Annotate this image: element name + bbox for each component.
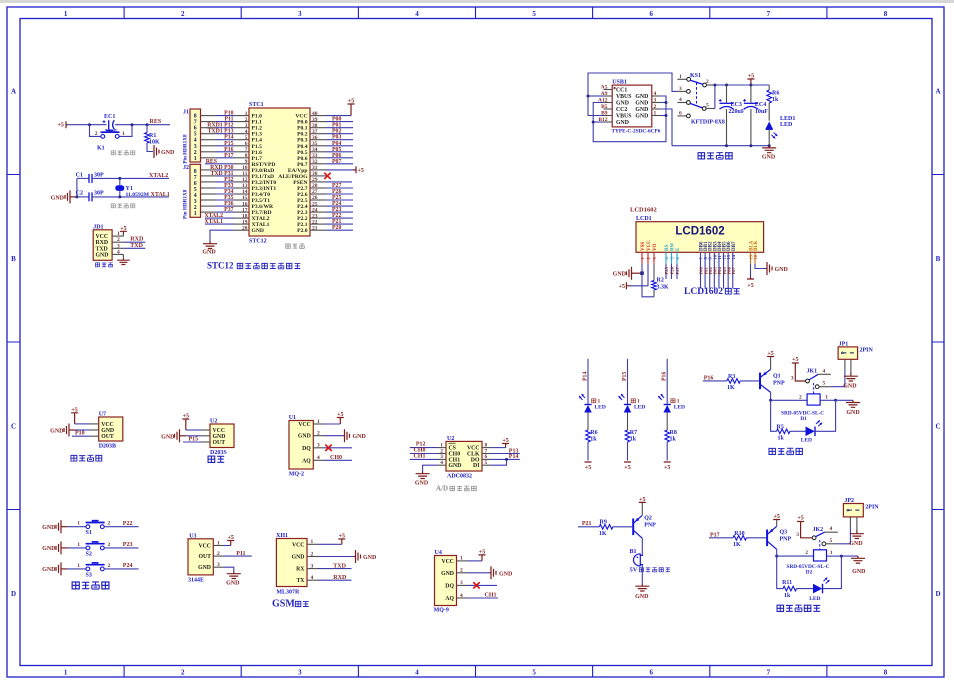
svg-text:+5: +5 <box>664 465 670 471</box>
svg-text:VSS: VSS <box>641 242 646 251</box>
ground GND LCD left <box>613 267 642 280</box>
wire P15 flame <box>183 437 201 443</box>
svg-text:GND: GND <box>635 101 648 107</box>
svg-text:GND: GND <box>762 155 776 161</box>
svg-text:4: 4 <box>830 526 833 532</box>
svg-text:GND: GND <box>441 571 454 577</box>
svg-text:GND: GND <box>616 120 629 126</box>
svg-text:2PIN: 2PIN <box>860 347 874 353</box>
frame row letters <box>11 87 941 598</box>
wire LED string P15 <box>627 359 629 405</box>
connector USB1 TYPE-C <box>612 80 652 127</box>
svg-text:10K: 10K <box>149 140 160 146</box>
connector JP2 2PIN <box>843 498 879 530</box>
junction Q3 coil <box>775 555 778 558</box>
svg-text:RXD: RXD <box>333 575 347 581</box>
svg-text:1k: 1k <box>778 435 785 441</box>
svg-text:TXD: TXD <box>130 243 143 249</box>
svg-text:C: C <box>935 422 940 430</box>
svg-text:XTAL1: XTAL1 <box>204 219 223 225</box>
svg-text:10uF: 10uF <box>755 109 768 115</box>
svg-text:6: 6 <box>649 10 653 18</box>
wire GND right column <box>660 102 666 104</box>
svg-text:XTAL1: XTAL1 <box>151 192 170 198</box>
power +5 BLA <box>747 277 754 289</box>
svg-text:Q2: Q2 <box>644 515 652 521</box>
wire CH1 adc <box>410 453 438 459</box>
ground GND S1 <box>42 520 67 533</box>
svg-text:P22: P22 <box>123 521 133 527</box>
svg-text:D: D <box>11 590 16 598</box>
svg-text:4: 4 <box>679 97 682 103</box>
svg-text:R1: R1 <box>149 133 156 139</box>
svg-text:B: B <box>11 255 16 263</box>
wire RXD <box>123 237 145 243</box>
svg-text:GND: GND <box>42 567 56 573</box>
junction Q1 coil <box>769 399 772 402</box>
svg-text:GND: GND <box>298 434 311 440</box>
wire R2 loop <box>642 273 654 297</box>
svg-text:VO: VO <box>653 243 658 251</box>
caption flame <box>208 456 224 462</box>
svg-text:2: 2 <box>805 550 808 556</box>
svg-text:KFTDIP-8X8: KFTDIP-8X8 <box>691 120 725 126</box>
junction gnd EC3 <box>725 144 728 147</box>
switch KS1 KFTDIP-8X8 <box>677 73 725 126</box>
svg-text:1: 1 <box>117 231 120 237</box>
relay contact JK1 <box>791 357 831 394</box>
ground GND buzzer <box>635 584 649 600</box>
wire crystal left <box>76 178 78 197</box>
wire P32 <box>201 177 235 183</box>
svg-text:GND: GND <box>846 410 860 416</box>
wire CH0 adc <box>410 448 438 454</box>
resistor R6 1k <box>586 413 598 461</box>
svg-text:S2: S2 <box>86 551 92 557</box>
svg-text:VCC: VCC <box>298 422 311 428</box>
wire P05 <box>326 147 353 153</box>
LCD pin names <box>641 240 759 251</box>
svg-text:1K: 1K <box>727 385 735 391</box>
wire P13 adc <box>491 448 520 454</box>
wire Q1 collector <box>770 392 772 400</box>
wire TXDP31 <box>201 171 235 177</box>
power +5 LED 1 <box>585 461 592 463</box>
svg-text:GND: GND <box>635 114 648 120</box>
svg-text:GND: GND <box>635 594 649 600</box>
svg-text:J1: J1 <box>183 110 189 116</box>
svg-text:4: 4 <box>440 460 443 466</box>
svg-text:+5: +5 <box>58 123 64 129</box>
svg-text:JK2: JK2 <box>813 527 824 533</box>
wire VBUS left <box>588 95 604 97</box>
svg-text:U7: U7 <box>99 412 106 418</box>
svg-text:2: 2 <box>317 431 320 437</box>
svg-text:P25: P25 <box>664 266 669 274</box>
svg-text:VBUS: VBUS <box>616 114 631 120</box>
svg-text:VCC: VCC <box>647 240 652 251</box>
svg-text:P27: P27 <box>675 266 680 274</box>
svg-text:+5: +5 <box>585 465 591 471</box>
svg-text:1K: 1K <box>733 542 741 548</box>
connector J2 Pin HDR1X8 <box>183 164 201 219</box>
connector JD1 <box>93 224 123 260</box>
caption gas valve <box>777 605 820 612</box>
svg-text:7: 7 <box>767 10 771 18</box>
ground GND reset <box>154 145 175 158</box>
power +5 Q2 <box>639 497 646 515</box>
capacitor EC3 220uF <box>719 85 745 146</box>
ground GND JP2 <box>849 530 864 547</box>
svg-text:GND: GND <box>852 569 866 575</box>
LCD control wires <box>664 252 680 279</box>
svg-text:3: 3 <box>654 98 657 104</box>
wire P20 <box>326 225 353 231</box>
svg-text:+5: +5 <box>120 226 126 232</box>
wire P15 <box>201 141 235 147</box>
LED indicator 2 <box>619 394 646 413</box>
wire P00 <box>326 117 353 123</box>
svg-text:LED: LED <box>595 405 606 411</box>
svg-text:EC4: EC4 <box>755 102 766 108</box>
svg-text:5: 5 <box>532 10 536 18</box>
svg-text:EC3: EC3 <box>731 102 742 108</box>
frame row dividers <box>7 175 945 510</box>
svg-text:1k: 1k <box>784 593 791 599</box>
svg-text:GND: GND <box>499 571 513 577</box>
sensor U3 3144E body <box>188 533 224 583</box>
svg-text:20: 20 <box>242 225 248 231</box>
ground GND coil D1 <box>836 400 861 416</box>
svg-text:U2: U2 <box>447 436 454 442</box>
svg-text:3: 3 <box>117 243 120 249</box>
svg-text:MQ-9: MQ-9 <box>434 608 449 614</box>
svg-text:CH1: CH1 <box>414 453 426 459</box>
junction rail EC3 <box>725 84 728 87</box>
resistor R9 1K <box>599 519 632 537</box>
power +5 MQ-2 <box>324 412 344 424</box>
caption button reset <box>111 151 135 155</box>
svg-text:2: 2 <box>799 394 802 400</box>
svg-text:2: 2 <box>108 542 111 548</box>
power +5 U3 <box>224 535 234 546</box>
svg-text:+5: +5 <box>71 407 77 413</box>
svg-text:R3: R3 <box>728 374 735 380</box>
svg-text:USB1: USB1 <box>612 80 627 86</box>
svg-text:P07: P07 <box>332 159 341 165</box>
svg-text:Pin HDR1X8: Pin HDR1X8 <box>183 134 189 164</box>
power +5 EA pin31 <box>326 166 364 174</box>
caption PIR <box>71 455 102 461</box>
svg-text:C2: C2 <box>76 191 83 197</box>
wire DI tie <box>491 459 507 465</box>
svg-text:+5: +5 <box>502 438 508 444</box>
wire P25 <box>326 195 353 201</box>
wire P23 <box>104 542 138 548</box>
svg-text:S1: S1 <box>86 530 92 536</box>
ground GND power <box>762 146 776 161</box>
svg-text:1k: 1k <box>772 97 779 103</box>
svg-text:220uF: 220uF <box>729 109 745 115</box>
power +5 LED 2 <box>624 461 631 463</box>
svg-text:K1: K1 <box>97 146 105 152</box>
wire P17 valve <box>709 532 733 538</box>
svg-text:1: 1 <box>217 540 220 546</box>
svg-text:R10: R10 <box>734 531 744 537</box>
resistor R7 1k <box>625 413 637 461</box>
svg-text:JP2: JP2 <box>844 498 854 504</box>
wire P14 adc <box>491 454 520 460</box>
svg-text:S3: S3 <box>86 572 92 578</box>
buzzer B1 <box>630 549 644 566</box>
svg-text:R9: R9 <box>600 519 607 525</box>
svg-text:GND: GND <box>353 434 367 440</box>
svg-text:GND: GND <box>96 252 109 258</box>
sensor U7 PIR body <box>90 412 123 450</box>
svg-text:P17: P17 <box>224 153 233 159</box>
power +5 adc <box>491 438 510 448</box>
wire JK1 pin5 to JP1 <box>831 371 845 387</box>
node RES <box>146 119 162 126</box>
wire P34 <box>201 189 235 195</box>
svg-text:Pin HDR1X8: Pin HDR1X8 <box>183 189 189 219</box>
svg-text:A: A <box>11 87 16 95</box>
wire S1 left <box>67 521 86 527</box>
wire GND rail bottom <box>592 141 594 143</box>
MCU left pins <box>234 111 249 232</box>
svg-text:VBUS: VBUS <box>616 94 631 100</box>
svg-text:3: 3 <box>460 580 463 586</box>
svg-text:A5: A5 <box>601 85 608 91</box>
ground GND coil D2 <box>841 556 866 575</box>
svg-text:B: B <box>936 255 941 263</box>
svg-text:RXD: RXD <box>96 240 109 246</box>
svg-text:4: 4 <box>311 575 314 581</box>
wire P21 <box>578 521 599 527</box>
svg-text:P10: P10 <box>75 431 85 437</box>
power +5 MQ-9 <box>467 549 486 561</box>
svg-text:EC1: EC1 <box>104 114 115 120</box>
svg-text:PNP: PNP <box>644 522 656 528</box>
capacitor C1 30P <box>76 173 120 183</box>
wire P10 U7 <box>72 431 90 437</box>
ground GND S2 <box>42 541 67 554</box>
wire P06 <box>326 153 353 159</box>
svg-text:P23: P23 <box>123 542 133 548</box>
capacitor EC1 10uF <box>103 114 118 135</box>
resistor R10 1K <box>733 531 766 548</box>
svg-text:LED: LED <box>809 596 820 602</box>
ground GND S3 <box>42 562 67 575</box>
svg-text:P20: P20 <box>332 225 341 231</box>
sensor U2 flame body <box>201 419 234 457</box>
wire snubber right D2 <box>823 556 842 589</box>
svg-text:TXD: TXD <box>333 563 346 569</box>
svg-text:4: 4 <box>415 10 419 18</box>
LCD pin numbers <box>640 254 758 259</box>
svg-text:P21: P21 <box>582 521 592 527</box>
capacitor C2 30P <box>76 191 120 202</box>
power +5 reset <box>58 121 69 129</box>
relay contact JK2 <box>796 516 838 550</box>
svg-text:D2: D2 <box>806 570 813 576</box>
svg-text:1: 1 <box>194 156 197 162</box>
wire S2 left <box>67 542 86 548</box>
svg-text:DB7: DB7 <box>732 241 737 251</box>
svg-text:+5: +5 <box>773 514 779 520</box>
svg-text:2: 2 <box>95 131 98 137</box>
wire Q3 collector <box>776 549 778 556</box>
svg-text:GND: GND <box>449 463 462 469</box>
ground GND MCU <box>202 242 217 256</box>
ground GND flame <box>161 429 201 442</box>
wire P11 <box>224 551 252 557</box>
svg-text:P14: P14 <box>583 372 589 381</box>
wire button branch <box>90 125 101 137</box>
svg-text:GND: GND <box>50 429 64 435</box>
pushbutton S2 <box>86 542 105 558</box>
svg-text:21: 21 <box>312 225 318 231</box>
svg-text:VCC: VCC <box>96 234 109 240</box>
svg-text:30P: 30P <box>94 173 104 179</box>
power +5 VCC pin40 <box>326 99 355 116</box>
junction coil right <box>834 399 837 402</box>
wire TXD <box>123 243 145 249</box>
caption GSM module <box>272 599 309 610</box>
svg-text:P2.0: P2.0 <box>297 228 308 234</box>
wire buzzer gnd <box>641 565 643 584</box>
svg-text:4: 4 <box>823 368 826 374</box>
svg-text:U2: U2 <box>210 419 217 425</box>
svg-text:P07: P07 <box>731 266 736 274</box>
pushbutton S1 <box>86 521 105 537</box>
svg-text:RXD: RXD <box>130 237 144 243</box>
junction LCD gnd <box>640 271 644 275</box>
svg-text:2: 2 <box>706 79 709 85</box>
svg-text:DQ: DQ <box>302 446 311 452</box>
svg-text:LED: LED <box>801 438 812 444</box>
svg-text:RW: RW <box>671 243 676 251</box>
svg-text:PNP: PNP <box>780 536 792 542</box>
svg-text:LCD1602: LCD1602 <box>630 207 657 214</box>
svg-text:A/D: A/D <box>436 485 448 493</box>
svg-text:+5: +5 <box>797 516 803 522</box>
svg-text:GSM: GSM <box>272 599 295 610</box>
svg-text:P17: P17 <box>710 532 720 538</box>
svg-text:1k: 1k <box>590 437 597 443</box>
svg-text:GND: GND <box>101 428 114 434</box>
svg-text:OUT: OUT <box>101 434 114 440</box>
wire P27 <box>326 183 353 189</box>
caption power circuit <box>698 153 732 160</box>
svg-text:RX: RX <box>296 567 305 573</box>
svg-text:U3: U3 <box>189 533 196 539</box>
svg-text:OUT: OUT <box>213 440 226 446</box>
svg-text:5: 5 <box>823 381 826 387</box>
ground GND JP1 <box>843 373 858 390</box>
svg-text:TYPE-C-2SDC-6CP6: TYPE-C-2SDC-6CP6 <box>612 129 661 135</box>
svg-text:1: 1 <box>77 521 80 527</box>
svg-text:KS1: KS1 <box>690 73 701 79</box>
svg-text:VCC: VCC <box>441 559 454 565</box>
svg-text:PNP: PNP <box>773 380 785 386</box>
svg-text:3: 3 <box>679 86 682 92</box>
wire XTAL1 chip <box>204 219 234 225</box>
junction gnd col a <box>665 101 668 104</box>
svg-text:P15: P15 <box>622 372 628 381</box>
resistor R3 1K <box>727 374 759 391</box>
svg-text:D: D <box>935 590 940 598</box>
svg-text:3: 3 <box>311 563 314 569</box>
svg-text:R2: R2 <box>657 278 664 284</box>
svg-text:1: 1 <box>64 10 68 18</box>
svg-text:1K: 1K <box>599 531 607 537</box>
power +5 rail symbol <box>747 74 754 86</box>
wire P35 <box>201 195 235 201</box>
svg-text:STC12: STC12 <box>249 239 267 245</box>
svg-text:2: 2 <box>217 551 220 557</box>
junction coil right D2 <box>840 555 843 558</box>
wire P12 adc <box>410 442 438 448</box>
svg-text:DI: DI <box>473 463 480 469</box>
LED indicator 3 <box>658 394 685 413</box>
relay D2 coil SRD-05VDC-SL-C <box>777 550 842 576</box>
wire P36 <box>201 201 235 207</box>
svg-text:RS: RS <box>665 244 670 251</box>
svg-text:GND: GND <box>226 581 240 587</box>
wire P16 <box>201 147 235 153</box>
ground GND crystal <box>51 190 77 203</box>
caption LCD1602 display <box>684 287 740 297</box>
svg-text:GND: GND <box>161 150 175 156</box>
svg-text:CC1: CC1 <box>616 88 627 94</box>
svg-text:P37: P37 <box>224 207 233 213</box>
svg-text:STC12: STC12 <box>207 261 234 271</box>
svg-text:GND: GND <box>252 228 264 234</box>
svg-text:5: 5 <box>706 103 709 109</box>
svg-text:VCC: VCC <box>101 422 114 428</box>
ground GND MQ-2 <box>324 429 367 442</box>
svg-text:6: 6 <box>679 110 682 116</box>
svg-text:XH1: XH1 <box>276 533 288 539</box>
svg-text:CC2: CC2 <box>616 107 627 113</box>
wire P22 <box>326 213 353 219</box>
ground GND U7 <box>50 424 90 437</box>
svg-text:2: 2 <box>181 669 185 677</box>
wire +5 rail <box>715 85 769 109</box>
capacitor EC4 10uF <box>743 85 768 146</box>
wire XTAL2 <box>120 177 169 179</box>
svg-text:OUT: OUT <box>198 554 211 560</box>
wire reset top <box>67 124 107 126</box>
svg-text:U1: U1 <box>289 415 296 421</box>
svg-text:Q3: Q3 <box>780 529 788 535</box>
ground JD1 <box>117 254 130 264</box>
svg-text:10uF: 10uF <box>105 129 118 135</box>
caption AD convert circuit <box>436 485 476 493</box>
svg-text:LCD1602: LCD1602 <box>684 287 723 297</box>
power +5 LCD <box>619 282 631 290</box>
power +5 Q3 <box>773 514 780 526</box>
svg-text:JP1: JP1 <box>839 341 849 347</box>
svg-text:GND: GND <box>613 272 627 278</box>
svg-text:5: 5 <box>532 669 536 677</box>
svg-text:+5: +5 <box>183 414 189 420</box>
adc U2 ADC0832 body <box>438 436 491 480</box>
wire VSS <box>641 252 643 263</box>
svg-text:2: 2 <box>311 551 314 557</box>
junction rail EC4 <box>749 84 752 87</box>
